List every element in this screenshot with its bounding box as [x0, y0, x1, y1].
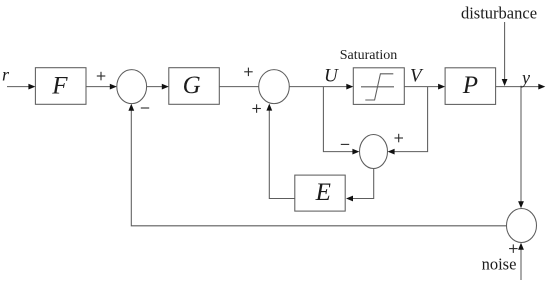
- minus sign sum3 left: [341, 143, 349, 145]
- svg-text:r: r: [2, 65, 10, 85]
- wire P to output y: [496, 86, 539, 88]
- block G: [169, 68, 220, 105]
- svg-text:y: y: [520, 67, 530, 87]
- svg-text:V: V: [410, 66, 424, 87]
- plus sign noise input: [509, 244, 517, 253]
- wire disturbance drop: [504, 22, 506, 80]
- arrowhead into noise sum top: [518, 201, 524, 208]
- block E: [295, 175, 345, 211]
- wire saturation to P (node V): [404, 86, 439, 88]
- arrowhead noise up: [518, 243, 524, 250]
- wire noise input: [520, 249, 522, 280]
- arrowhead output y: [538, 84, 545, 90]
- svg-text:disturbance: disturbance: [461, 4, 537, 23]
- plus sign sum2 input: [244, 68, 253, 77]
- arrowhead into F: [28, 84, 35, 90]
- arrowhead feedback into sum1 bottom: [128, 104, 134, 111]
- svg-text:G: G: [183, 72, 201, 99]
- wire r input: [7, 86, 30, 88]
- wire E to sum2: [269, 110, 295, 199]
- arrowhead into saturation: [346, 84, 353, 90]
- wire U branch down to sum3: [323, 87, 353, 152]
- wire sum3 to E: [352, 169, 374, 199]
- block F: [35, 68, 86, 105]
- wire G to sum2: [219, 86, 258, 88]
- svg-text:P: P: [462, 72, 478, 99]
- saturation icon curve: [365, 74, 393, 100]
- block Saturation: [353, 68, 404, 105]
- summing junction S3: [360, 135, 388, 169]
- arrowhead E into sum2 bottom: [266, 104, 272, 111]
- arrowhead into P: [438, 84, 445, 90]
- plus sign sum1 input: [97, 72, 106, 81]
- arrowhead V into sum3: [388, 149, 395, 155]
- summing junction S1: [117, 70, 147, 104]
- wire feedback bottom to sum1: [131, 110, 506, 226]
- block P: [445, 68, 496, 105]
- svg-text:U: U: [324, 66, 339, 87]
- plus sign sum2 lower input: [252, 104, 261, 113]
- wire V branch down to sum3: [394, 87, 428, 152]
- wire sum1 to G: [147, 86, 163, 88]
- wire F to sum1: [86, 86, 111, 88]
- svg-text:F: F: [51, 73, 68, 100]
- svg-text:E: E: [315, 179, 331, 206]
- saturation icon axis: [361, 86, 394, 88]
- svg-text:noise: noise: [482, 255, 517, 274]
- wire sum2 to saturation (node U): [289, 86, 347, 88]
- svg-text:Saturation: Saturation: [340, 48, 398, 63]
- arrowhead U into sum3: [352, 149, 359, 155]
- plus sign sum3 right: [395, 134, 404, 143]
- arrowhead disturbance down: [502, 79, 508, 86]
- minus sign sum1 feedback: [141, 107, 149, 109]
- arrowhead into G: [162, 84, 169, 90]
- wire branch down to noise sum: [520, 87, 522, 202]
- arrowhead into E: [346, 196, 353, 202]
- summing junction S2: [259, 70, 290, 104]
- summing junction S4 (noise): [507, 209, 537, 243]
- arrowhead into sum1: [110, 84, 117, 90]
